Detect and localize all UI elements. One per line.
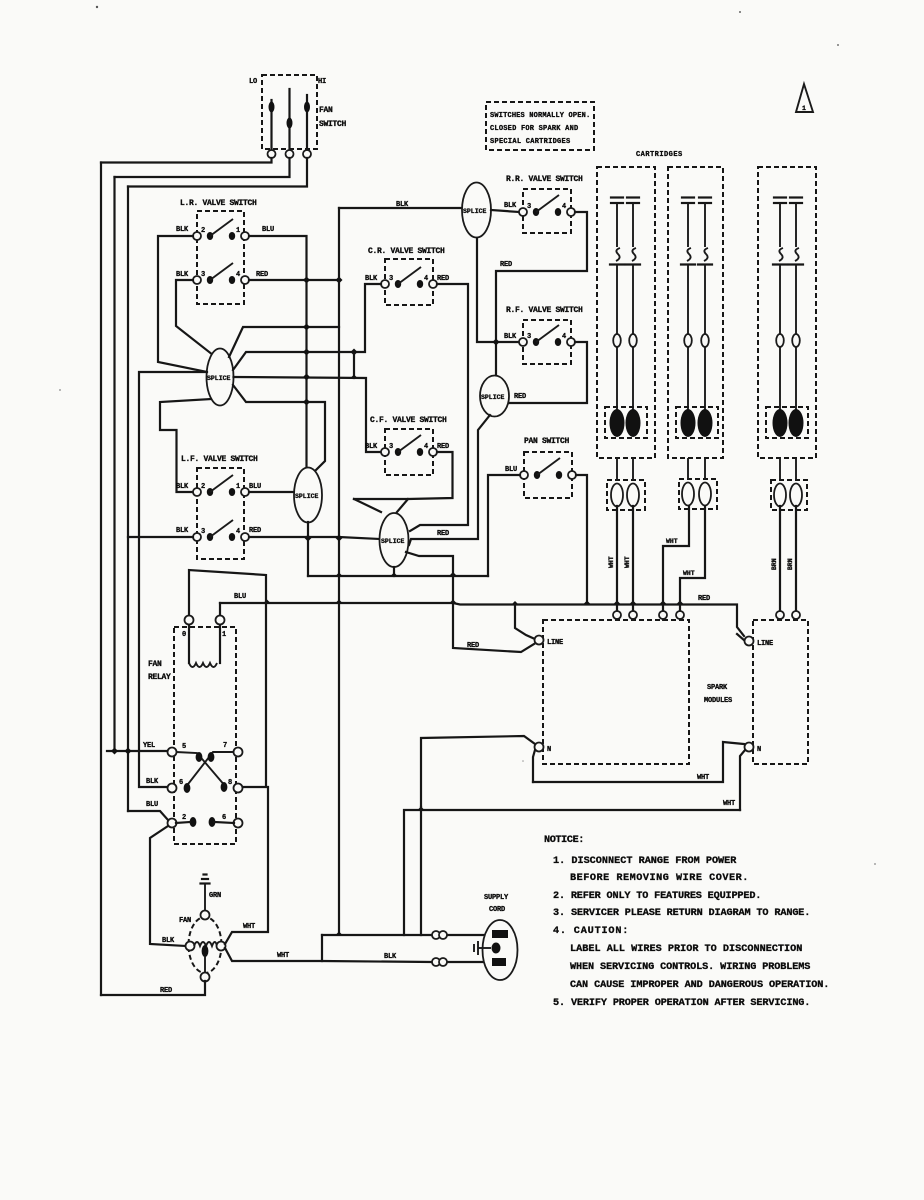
fan switch terminal 3 <box>303 150 311 158</box>
svg-text:5. VERIFY PROPER OPERATION AFT: 5. VERIFY PROPER OPERATION AFTER SERVICI… <box>553 998 810 1009</box>
svg-text:3: 3 <box>527 333 531 341</box>
L.R. valve switch terminal 4 <box>241 276 249 284</box>
igniter block 1 terminal 1 <box>611 484 623 507</box>
svg-text:BLK: BLK <box>176 271 189 279</box>
junction bump y604 x680 <box>677 601 684 605</box>
fan relay contact arm 1 <box>176 752 226 787</box>
igniter block 1 box <box>607 480 645 510</box>
L.F. valve switch terminal 2 <box>193 488 201 496</box>
wire right N lower riser to 810 bus <box>740 750 745 810</box>
L.R. valve switch contact row 2 <box>207 276 213 284</box>
C.R. valve switch terminal 3 <box>381 280 389 288</box>
svg-text:SPARK: SPARK <box>707 684 728 692</box>
wire C.R. t3 BLK to splice stubs <box>354 284 381 352</box>
svg-text:BLU: BLU <box>146 801 158 809</box>
svg-text:3: 3 <box>389 275 393 283</box>
C.F. valve switch box <box>385 429 433 475</box>
igniter block 1 terminal 2 <box>627 484 639 507</box>
L.F. valve switch terminal 4 <box>241 533 249 541</box>
svg-text:BLK: BLK <box>504 333 517 341</box>
R.R. valve switch contact <box>533 208 539 216</box>
fan relay contact terminal 5 <box>168 748 177 757</box>
fan relay contact arm 2 <box>185 752 234 788</box>
fan relay row3 terminal 6b <box>234 819 243 828</box>
wire igniter3 left to module <box>779 506 781 611</box>
splice A oval <box>207 349 234 406</box>
wire S2 bottom to splice S5 <box>409 415 490 545</box>
supply cord terminal BLK <box>492 958 506 966</box>
pan switch terminal right <box>568 471 576 479</box>
spark module left top terminal 1 <box>613 611 621 619</box>
svg-text:RED: RED <box>500 261 512 269</box>
svg-text:BLU: BLU <box>262 226 274 234</box>
svg-text:WHT: WHT <box>697 774 709 782</box>
svg-text:R.F. VALVE SWITCH: R.F. VALVE SWITCH <box>506 306 583 315</box>
C.R. valve switch box <box>385 259 433 305</box>
cartridge 1 burner box <box>605 407 647 438</box>
igniter block 3 terminal 1 <box>774 484 786 507</box>
svg-text:1: 1 <box>236 227 240 235</box>
wire L1 extension to right module <box>453 603 744 636</box>
fan relay coil terminal 1 <box>216 616 225 625</box>
svg-text:BLK: BLK <box>396 201 409 209</box>
svg-text:RED: RED <box>437 275 449 283</box>
svg-text:RED: RED <box>437 530 449 538</box>
fan switch pole 2 <box>288 89 290 149</box>
wire S1 to R.R. t3 <box>491 210 519 212</box>
svg-text:NOTICE:: NOTICE: <box>544 835 584 846</box>
wire bus L2 <box>220 602 452 604</box>
wire fan t2 to left bus <box>115 158 290 177</box>
wire R.R. t4 RED loop down-left <box>496 212 587 377</box>
R.R. valve switch box <box>523 189 571 233</box>
svg-text:BLU: BLU <box>505 466 517 474</box>
svg-text:FAN: FAN <box>179 917 191 925</box>
cartridge 1 electrode 2 <box>626 198 640 413</box>
spark module right top terminal 1 <box>776 611 784 619</box>
junction bump y604 x633 <box>630 601 637 605</box>
wire supply line lower y962 <box>322 961 489 962</box>
cartridge 3 burner electrode 2 <box>789 409 804 437</box>
wire igniter2 left to module jog <box>663 506 689 611</box>
svg-text:SPLICE: SPLICE <box>295 493 319 500</box>
fan relay row3 terminal 2 <box>168 819 177 828</box>
wire splice B bottom riser to L1 <box>307 522 309 576</box>
svg-text:MODULES: MODULES <box>704 697 732 705</box>
svg-text:LO: LO <box>249 78 257 86</box>
svg-text:SWITCH: SWITCH <box>319 120 347 129</box>
supply cord terminal WHT <box>492 930 508 938</box>
svg-text:1: 1 <box>802 105 806 112</box>
junction bump y935 x339 <box>336 932 343 936</box>
ground symbol GRN <box>204 873 207 875</box>
svg-text:R.R. VALVE SWITCH: R.R. VALVE SWITCH <box>506 175 583 184</box>
wire left N stub down-left <box>533 750 535 782</box>
L.R. valve switch contact row 1 <box>207 232 213 240</box>
wire cartridge to igniter <box>779 458 781 480</box>
junction dot 354/352 <box>351 349 358 356</box>
wire C.F. t4 RED down to buses <box>354 452 453 499</box>
svg-text:CLOSED FOR SPARK AND: CLOSED FOR SPARK AND <box>490 125 578 133</box>
svg-text:2. REFER ONLY TO FEATURES EQUI: 2. REFER ONLY TO FEATURES EQUIPPED. <box>553 891 761 902</box>
wire cartridge to igniter <box>704 458 706 479</box>
junction dot R.F. feed <box>493 339 500 346</box>
wire L.R. t1 BLU down bus <box>249 236 307 470</box>
svg-text:C.R. VALVE SWITCH: C.R. VALVE SWITCH <box>368 247 445 256</box>
wire main vertical x339 <box>338 208 340 934</box>
igniter block 2 terminal 2 <box>699 483 711 506</box>
wire relay t0 riser to BLU node <box>189 570 266 615</box>
wire right LINE lower stub <box>737 634 745 641</box>
cartridge 2 electrode 1 <box>681 198 695 413</box>
wire left N stub up-left <box>421 736 535 807</box>
svg-text:PAN SWITCH: PAN SWITCH <box>524 437 570 446</box>
note box switches normally open <box>486 102 594 150</box>
junction bump 810 x421 <box>418 807 425 811</box>
fan relay contact terminal 8 <box>234 784 243 793</box>
svg-text:BLK: BLK <box>365 443 378 451</box>
svg-text:3: 3 <box>389 443 393 451</box>
cartridge 1 burner electrode 2 <box>626 409 641 437</box>
cartridge 3 box <box>758 167 816 458</box>
fan motor left terminal <box>186 942 195 951</box>
svg-text:WHEN SERVICING CONTROLS. WIRIN: WHEN SERVICING CONTROLS. WIRING PROBLEMS <box>570 962 810 973</box>
wire igniter2 right to module jog <box>680 506 705 611</box>
svg-text:BLK: BLK <box>176 483 189 491</box>
wire splice A left stub BLK down to relay <box>139 372 207 787</box>
spark module right LINE terminal <box>745 637 754 646</box>
svg-text:1. DISCONNECT RANGE FROM POWER: 1. DISCONNECT RANGE FROM POWER <box>553 856 737 867</box>
junction dot BLU crossing RED <box>303 277 310 284</box>
module terminal stems <box>616 619 618 621</box>
C.R. valve switch terminal 4 <box>429 280 437 288</box>
fan switch pole 1 <box>270 100 272 149</box>
fan switch box <box>262 75 317 149</box>
R.F. valve switch box <box>523 320 571 364</box>
svg-text:N: N <box>547 746 551 754</box>
svg-text:RED: RED <box>437 443 449 451</box>
wire R.F. t4 RED loop to splice S2 <box>509 342 587 403</box>
splice S1 oval <box>462 183 491 238</box>
wire relay row3 down to fan motor BLK <box>150 826 186 946</box>
svg-text:4: 4 <box>562 333 566 341</box>
cartridge 1 box <box>597 167 655 458</box>
spark module left N terminal <box>535 743 544 752</box>
svg-text:2: 2 <box>182 814 186 822</box>
svg-text:6: 6 <box>179 779 183 787</box>
spark module left top terminal 3 <box>659 611 667 619</box>
svg-text:CORD: CORD <box>489 906 505 914</box>
svg-text:RED: RED <box>249 527 261 535</box>
svg-text:2: 2 <box>201 227 205 235</box>
wire pan right to spark line <box>576 475 587 604</box>
wire motor WHT upper to relay riser <box>225 787 268 944</box>
R.F. valve switch terminal 4 <box>567 338 575 346</box>
wire cartridge to igniter <box>632 458 634 480</box>
svg-text:SWITCHES NORMALLY OPEN.: SWITCHES NORMALLY OPEN. <box>490 112 590 120</box>
svg-text:WHT: WHT <box>624 556 631 568</box>
wire left bus BLU vertical <box>127 187 129 812</box>
junction bump L1 x452 <box>450 572 457 576</box>
svg-text:4: 4 <box>236 271 240 279</box>
supply cord ground pin <box>492 943 501 954</box>
junction dot at x339 RED <box>336 277 343 284</box>
igniter block 2 terminal 1 <box>682 483 694 506</box>
svg-text:SPLICE: SPLICE <box>481 394 505 401</box>
svg-text:4: 4 <box>236 528 240 536</box>
svg-text:1: 1 <box>236 483 240 491</box>
cartridge 2 burner electrode 2 <box>698 409 713 437</box>
spark module right top terminal 2 <box>792 611 800 619</box>
svg-text:WHT: WHT <box>243 923 255 931</box>
svg-text:FAN: FAN <box>319 106 333 115</box>
svg-text:SPLICE: SPLICE <box>207 375 231 382</box>
junction dot 306/377 <box>303 374 310 381</box>
svg-text:7: 7 <box>223 742 227 750</box>
wire motor bottom RED to left bus <box>101 981 205 995</box>
svg-text:BLK: BLK <box>162 937 175 945</box>
wire igniter1 left to module <box>616 506 618 611</box>
wire splice A right stub y377 <box>234 377 382 452</box>
fan motor right terminal <box>217 942 226 951</box>
junction dot RED bus x339 <box>336 535 343 542</box>
spark module left LINE terminal <box>535 636 544 645</box>
svg-text:WHT: WHT <box>608 556 615 568</box>
L.R. valve switch terminal 2 <box>193 232 201 240</box>
svg-text:BLK: BLK <box>365 275 378 283</box>
C.F. valve switch terminal 4 <box>429 448 437 456</box>
svg-text:WHT: WHT <box>666 538 678 545</box>
L.F. valve switch contact row1 <box>207 488 213 496</box>
svg-text:L.R. VALVE SWITCH: L.R. VALVE SWITCH <box>180 199 257 208</box>
wire L2 into left module LINE <box>515 605 535 640</box>
junction bump L2 x267 <box>264 600 271 604</box>
fan switch terminal 1 <box>268 150 276 158</box>
L.R. valve switch terminal 3 <box>193 276 201 284</box>
C.F. valve switch terminal 3 <box>381 448 389 456</box>
svg-text:L.F. VALVE SWITCH: L.F. VALVE SWITCH <box>181 455 258 464</box>
svg-text:2: 2 <box>201 483 205 491</box>
svg-text:BRN: BRN <box>787 558 794 570</box>
fan relay coil terminal 0 <box>185 616 194 625</box>
wire L2 upper stub into LINE <box>406 552 534 652</box>
wire L.R. t3 to splice A diagonal <box>176 280 213 355</box>
spark module right N terminal <box>745 743 754 752</box>
pan switch terminal left <box>520 471 528 479</box>
svg-text:4: 4 <box>424 275 428 283</box>
fan relay box <box>174 627 236 844</box>
spark module left box <box>543 620 689 764</box>
wire S5 bottom riser to L1 <box>393 567 395 576</box>
fan switch pole 3 <box>306 95 308 149</box>
svg-text:N: N <box>757 746 761 754</box>
wire bus L1 <box>308 575 488 577</box>
junction dot 306/402 <box>303 399 310 406</box>
R.F. valve switch terminal 3 <box>519 338 527 346</box>
svg-text:GRN: GRN <box>209 892 221 900</box>
spark module right box <box>753 620 808 764</box>
svg-text:HI: HI <box>318 78 326 86</box>
fan motor top terminal <box>201 911 210 920</box>
svg-text:RED: RED <box>256 271 268 279</box>
connector CO lower <box>432 958 440 966</box>
svg-text:6: 6 <box>222 814 226 822</box>
svg-text:BLU: BLU <box>234 593 246 601</box>
wire L.R. t2 to splice A <box>158 236 207 372</box>
wire left bus YEL vertical <box>113 177 115 751</box>
svg-text:BLK: BLK <box>176 527 189 535</box>
wire WHT lower bus to right N <box>533 742 744 782</box>
svg-text:BEFORE REMOVING WIRE COVER.: BEFORE REMOVING WIRE COVER. <box>570 873 748 884</box>
svg-text:BLU: BLU <box>249 483 261 491</box>
igniter block 3 box <box>771 480 807 510</box>
junction dot YEL x128 <box>125 748 132 755</box>
junction bump y604 x663 <box>660 601 667 605</box>
svg-text:LABEL ALL WIRES PRIOR TO DISCO: LABEL ALL WIRES PRIOR TO DISCONNECTION <box>570 944 802 955</box>
svg-text:CAN CAUSE IMPROPER AND DANGERO: CAN CAUSE IMPROPER AND DANGEROUS OPERATI… <box>570 980 829 991</box>
wire L.R. t4 RED to vertical <box>249 279 339 281</box>
svg-text:SPLICE: SPLICE <box>381 538 405 545</box>
svg-text:CARTRIDGES: CARTRIDGES <box>636 151 682 159</box>
wire cartridge to igniter <box>687 458 689 479</box>
cartridge 2 burner box <box>676 407 718 438</box>
cartridge 2 burner electrode 1 <box>681 409 696 437</box>
fan relay contact terminal 6 <box>168 784 177 793</box>
svg-text:BLK: BLK <box>146 778 159 786</box>
igniter block 2 box <box>679 479 717 509</box>
wire N riser x421 to supply line <box>420 807 422 935</box>
R.F. valve switch contact <box>533 338 539 346</box>
fan relay coil <box>188 625 190 663</box>
splice S5 oval <box>380 513 409 567</box>
wire igniter3 right to module <box>795 506 797 611</box>
cartridge 3 electrode 2 <box>789 198 803 413</box>
junction bump y604 x617 <box>614 601 621 605</box>
cartridge 1 electrode 1 <box>610 198 624 413</box>
svg-text:LINE: LINE <box>757 640 773 648</box>
junction dot 306/327 <box>303 324 310 331</box>
fan relay contact terminal 7 <box>234 748 243 757</box>
warning triangle 1 <box>796 84 813 112</box>
svg-text:WHT: WHT <box>683 570 695 577</box>
wire igniter1 right to module <box>632 506 634 611</box>
svg-text:3: 3 <box>201 528 205 536</box>
wire BLK top to splice S1 <box>339 207 462 209</box>
pan switch contact <box>534 471 540 479</box>
wire BLU bus into relay row3 <box>128 811 168 820</box>
wire WHT 810 bus <box>404 810 740 935</box>
wire motor WHT lower to supply <box>225 935 322 961</box>
wire cartridge to igniter <box>616 458 618 480</box>
cartridge 2 box <box>668 167 723 458</box>
svg-text:RED: RED <box>467 642 479 650</box>
igniter block 3 terminal 2 <box>790 484 802 507</box>
svg-text:SPLICE: SPLICE <box>463 208 487 215</box>
wire L.F. t3 BLK to left bus <box>128 536 193 538</box>
fan switch terminal 2 <box>286 150 294 158</box>
junction bump L2 x339 <box>336 600 343 604</box>
spark module left top terminal 4 <box>676 611 684 619</box>
junction bump y604 x587 <box>584 601 591 605</box>
svg-text:RED: RED <box>160 987 172 995</box>
wire L.F. t4 RED bus to splice S5 <box>249 537 380 539</box>
cartridge 1 burner electrode 1 <box>610 409 625 437</box>
C.F. valve switch contact <box>395 448 401 456</box>
wire relay t1 riser to L2 <box>219 603 221 615</box>
svg-text:YEL: YEL <box>143 742 155 750</box>
svg-text:4: 4 <box>424 443 428 451</box>
wire fan t3 to left bus <box>128 158 307 187</box>
fan motor circle <box>189 917 222 973</box>
svg-text:BLK: BLK <box>176 226 189 234</box>
svg-text:1: 1 <box>222 631 226 639</box>
wire supply line upper y935 <box>322 934 489 936</box>
cartridge 3 burner box <box>766 407 808 438</box>
C.R. valve switch contact <box>395 280 401 288</box>
wire YEL to relay t5 <box>107 750 167 752</box>
R.R. valve switch terminal 4 <box>567 208 575 216</box>
wire splice A right stub y352 <box>233 352 354 370</box>
L.R. valve switch box <box>197 211 244 304</box>
wire pan left BLU to riser <box>488 475 520 576</box>
svg-text:3: 3 <box>201 271 205 279</box>
svg-text:BLK: BLK <box>504 202 517 210</box>
svg-text:WHT: WHT <box>277 952 289 960</box>
supply cord oval <box>483 920 518 980</box>
svg-text:RED: RED <box>514 393 526 401</box>
wire BLU node down to t8 <box>242 603 266 787</box>
cartridge 3 electrode 1 <box>773 198 787 413</box>
junction bump L1 x394 <box>391 573 398 577</box>
svg-text:SPECIAL CARTRIDGES: SPECIAL CARTRIDGES <box>490 138 570 146</box>
junction bump L1 x339 <box>336 573 343 577</box>
scan specks <box>96 6 98 8</box>
svg-text:C.F. VALVE SWITCH: C.F. VALVE SWITCH <box>370 416 447 425</box>
svg-text:FAN: FAN <box>148 660 162 669</box>
cartridge 3 burner electrode 1 <box>773 409 788 437</box>
svg-text:4: 4 <box>562 203 566 211</box>
svg-text:8: 8 <box>228 779 232 787</box>
pan switch box <box>524 452 572 498</box>
svg-text:BLK: BLK <box>384 953 397 961</box>
L.F. valve switch terminal 1 <box>241 488 249 496</box>
R.R. valve switch terminal 3 <box>519 208 527 216</box>
wire L.F. t1 BLU to splice B <box>249 491 294 493</box>
svg-text:3. SERVICER PLEASE RETURN DIAG: 3. SERVICER PLEASE RETURN DIAGRAM TO RAN… <box>553 908 810 919</box>
fan motor center tap <box>202 945 209 957</box>
spark module left top terminal 2 <box>629 611 637 619</box>
wire fan t1 to left bus <box>101 158 272 163</box>
L.R. valve switch terminal 1 <box>241 232 249 240</box>
svg-text:5: 5 <box>182 743 186 751</box>
junction dot 306/352 <box>303 349 310 356</box>
svg-text:RED: RED <box>698 595 710 603</box>
wire left bus RED vertical <box>100 163 102 996</box>
wire cartridge to igniter <box>795 458 797 480</box>
L.F. valve switch box <box>197 468 244 559</box>
connector CO upper <box>432 931 440 939</box>
svg-text:BRN: BRN <box>771 558 778 570</box>
svg-text:LINE: LINE <box>547 639 563 647</box>
cartridge 2 electrode 2 <box>698 198 712 413</box>
L.F. valve switch contact row2 <box>207 533 213 541</box>
svg-text:3: 3 <box>527 203 531 211</box>
svg-text:0: 0 <box>182 631 186 639</box>
wire S1 bottom to R.F. t3 <box>477 238 519 342</box>
svg-text:RELAY: RELAY <box>148 673 171 682</box>
wire x354 vertical joining stubs <box>353 352 355 378</box>
fan motor winding <box>194 942 217 946</box>
